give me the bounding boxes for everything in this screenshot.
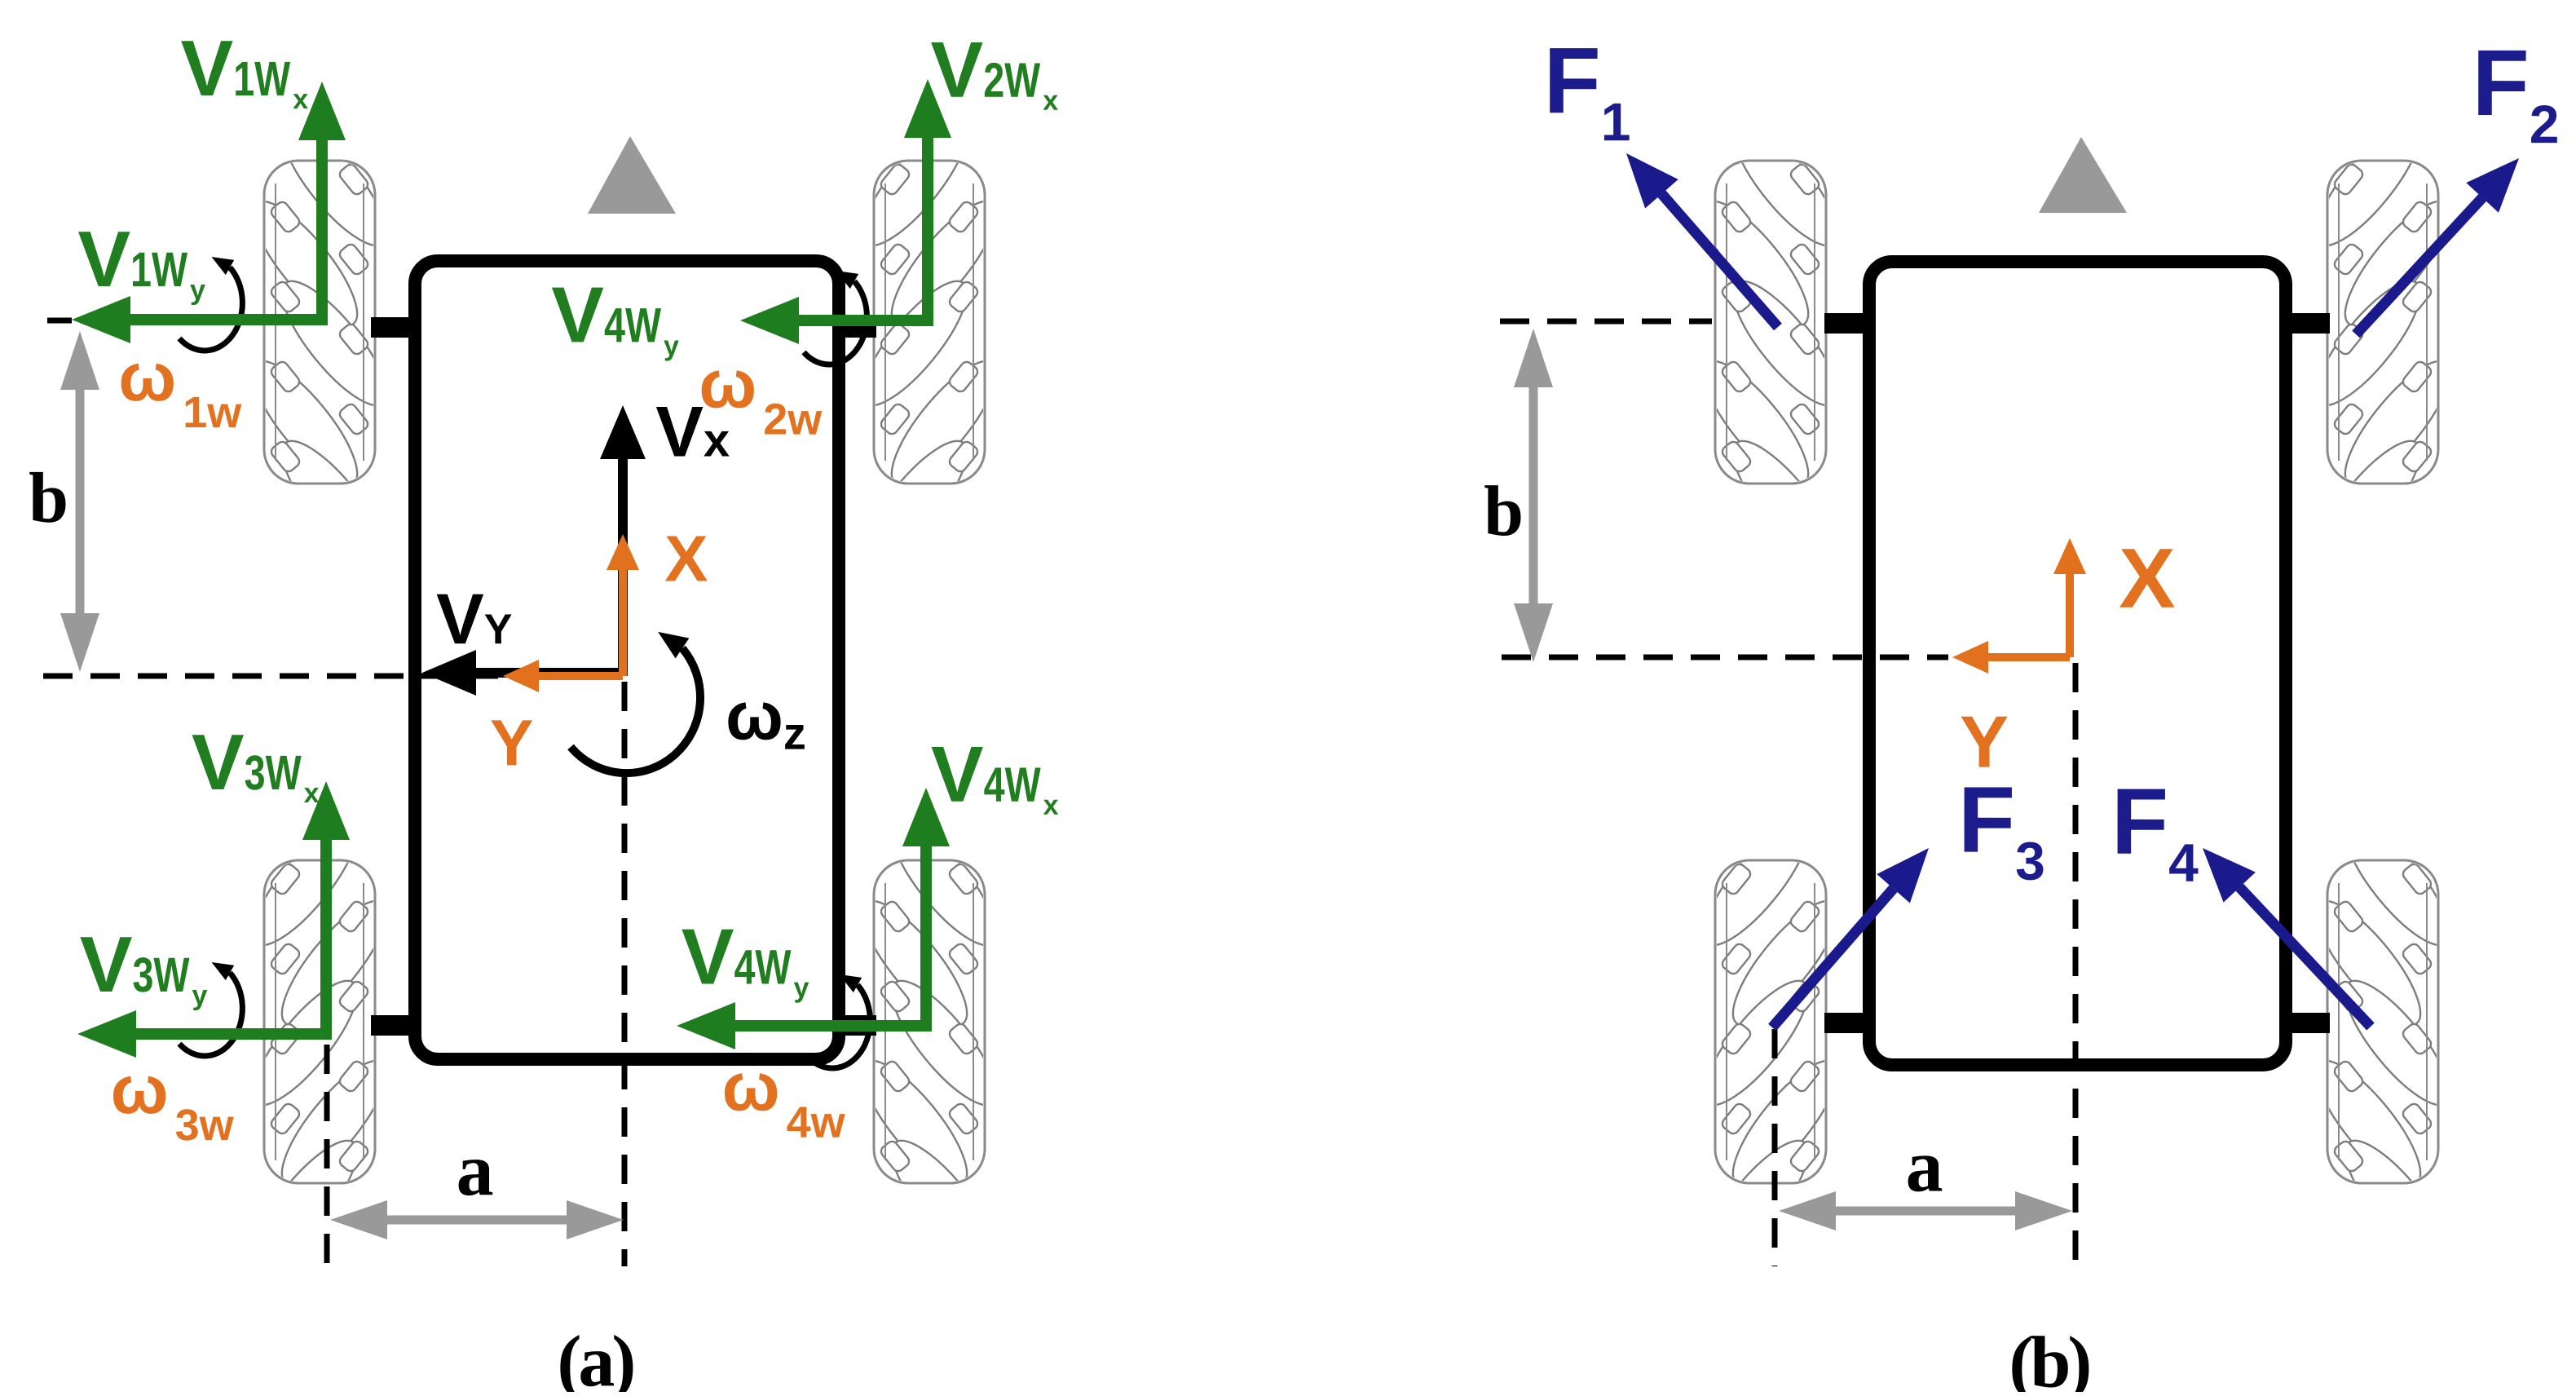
svg-text:b: b — [1484, 472, 1524, 551]
svg-text:X: X — [2119, 532, 2175, 626]
svg-text:Y: Y — [490, 706, 533, 779]
svg-text:(b): (b) — [2009, 1323, 2089, 1392]
svg-text:b: b — [29, 459, 68, 538]
svg-text:a: a — [457, 1128, 494, 1211]
svg-text:a: a — [1906, 1124, 1943, 1208]
svg-text:(a): (a) — [557, 1321, 633, 1392]
svg-text:X: X — [664, 522, 708, 594]
